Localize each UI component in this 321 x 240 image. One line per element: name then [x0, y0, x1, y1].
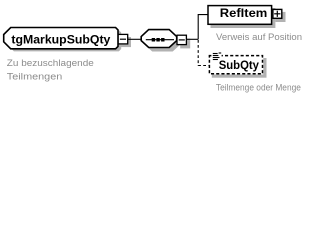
expand plus box shadow of RefItem [276, 12, 286, 22]
svg-text:Teilmenge oder Menge: Teilmenge oder Menge [216, 83, 301, 94]
expand minus box shadow of sequence [180, 39, 190, 49]
svg-text:tgMarkupSubQty: tgMarkupSubQty [11, 33, 110, 47]
wire from sequence to branch [187, 38, 198, 40]
expand minus box shadow of tgMarkupSubQty [121, 37, 131, 47]
element RefItem shadow [211, 8, 276, 28]
element SubQty box (dashed, optional) [209, 56, 262, 74]
branch wire dashed to SubQty [198, 40, 209, 66]
svg-text:Verweis auf Position: Verweis auf Position [216, 32, 302, 43]
svg-text:RefItem: RefItem [220, 6, 267, 20]
expand minus box of sequence [177, 35, 186, 44]
svg-text:SubQty: SubQty [219, 58, 260, 72]
wire from tgMarkupSubQty to sequence [128, 38, 141, 40]
sequence compositor shadow [145, 34, 181, 52]
expand minus box of tgMarkupSubQty [118, 34, 128, 44]
element tgMarkupSubQty box [4, 28, 118, 49]
expand plus box of RefItem [273, 9, 282, 18]
svg-text:Zu bezuschlagende: Zu bezuschlagende [7, 58, 94, 69]
sequence inner line [146, 39, 174, 41]
element SubQty white base [209, 55, 264, 75]
element RefItem box [208, 6, 272, 25]
branch wire solid to RefItem [198, 15, 208, 40]
element SubQty shadow [212, 58, 267, 78]
sequence compositor octagon [141, 30, 177, 48]
svg-text:Teilmengen: Teilmengen [7, 71, 63, 82]
element tgMarkupSubQty shadow [7, 30, 121, 51]
sequence dots [152, 38, 155, 42]
simple content icon of SubQty [211, 52, 221, 60]
